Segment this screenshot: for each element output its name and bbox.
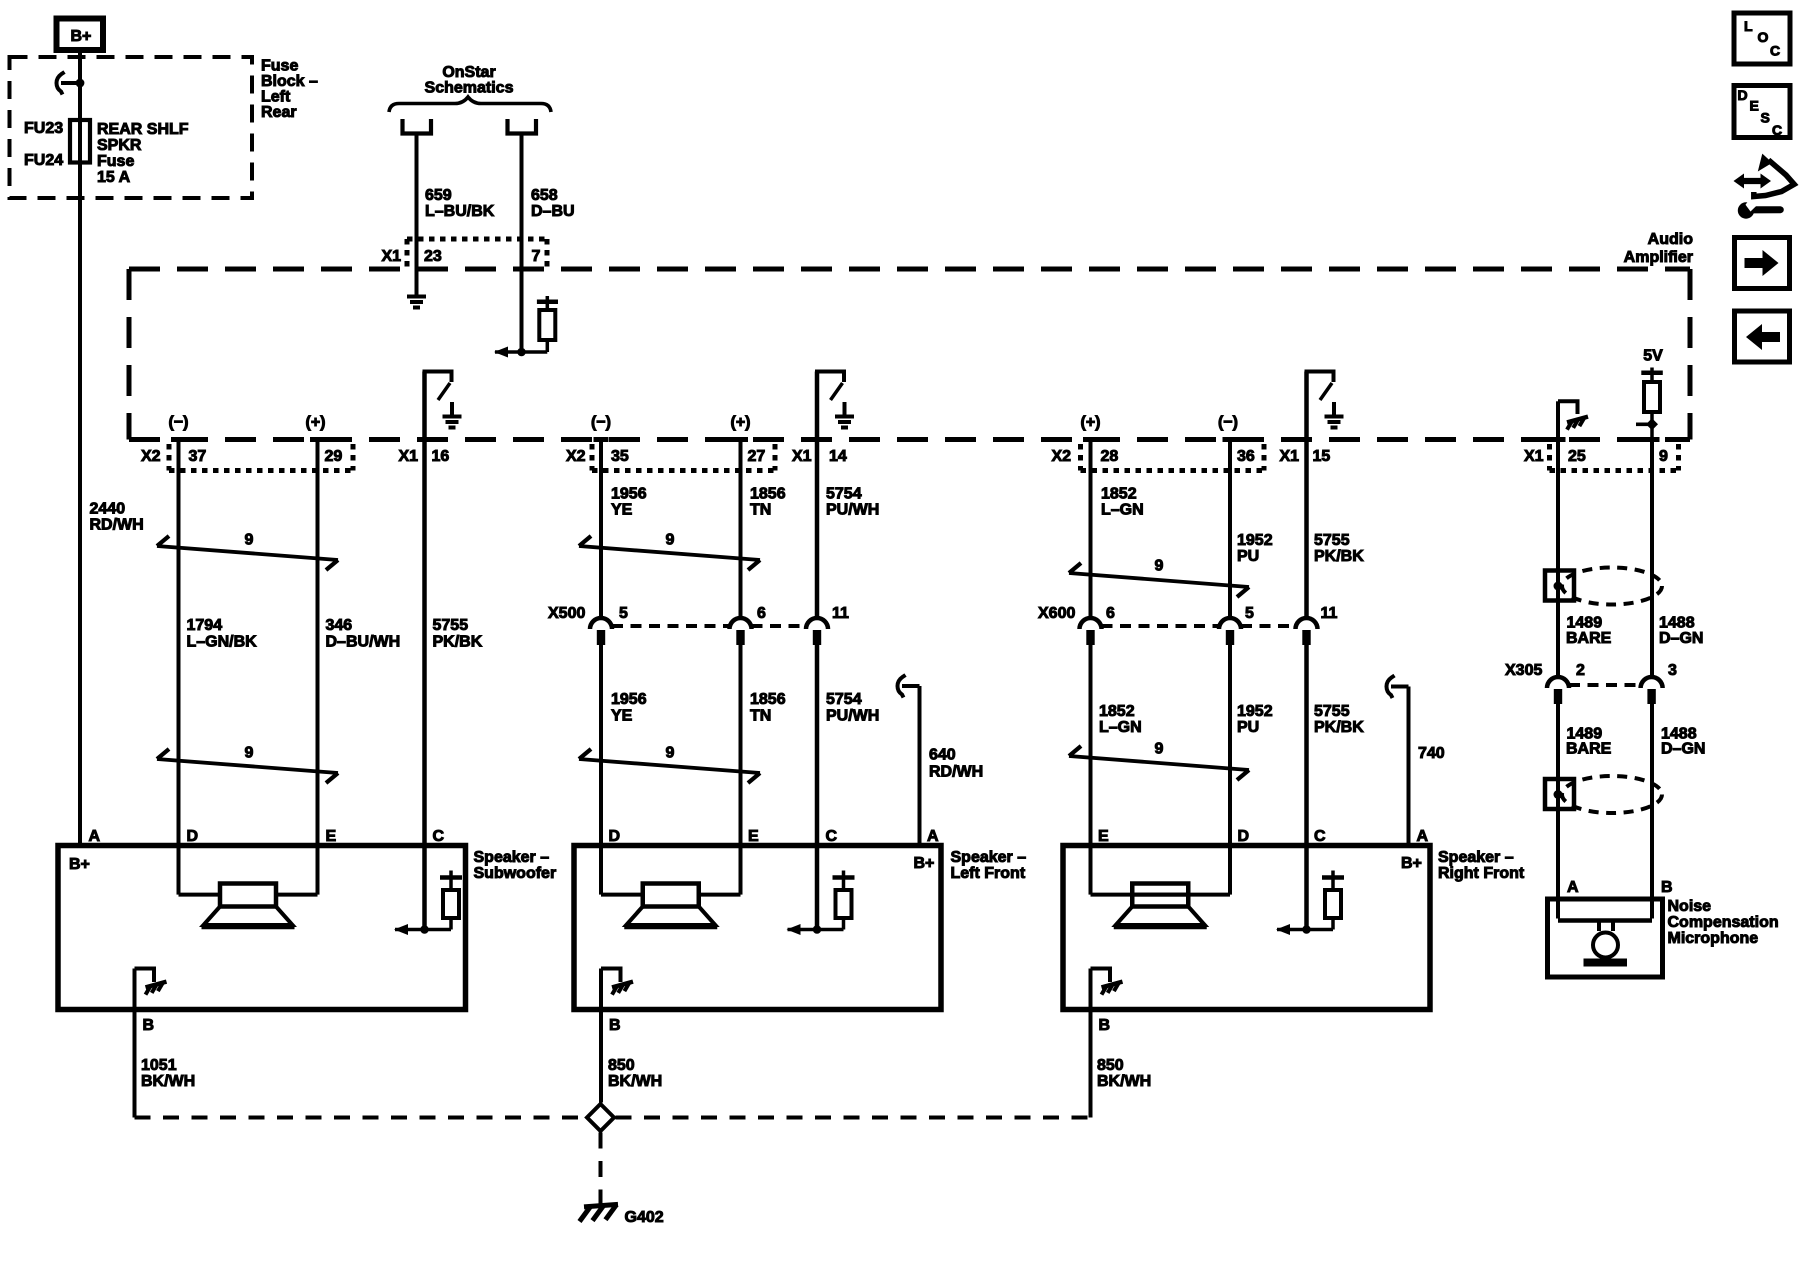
- svg-text:FU24: FU24: [24, 152, 63, 169]
- load resistor to pin C left front: [815, 846, 820, 930]
- svg-text:B+: B+: [1401, 855, 1422, 872]
- connector hook feed inside fuse block: [57, 72, 65, 95]
- svg-text:Audio: Audio: [1648, 231, 1694, 248]
- svg-text:2: 2: [1576, 662, 1585, 679]
- wire 640 RD/WH to LF speaker B+: [898, 675, 906, 698]
- svg-text:658: 658: [531, 187, 558, 204]
- wire 1956 YE upper (pin 35): [599, 440, 603, 617]
- svg-text:Left: Left: [261, 89, 291, 106]
- svg-text:36: 36: [1237, 448, 1255, 465]
- svg-text:PU: PU: [1237, 719, 1259, 736]
- svg-text:PU: PU: [1237, 548, 1259, 565]
- signal wire 1488 D-GN: [1650, 440, 1654, 676]
- svg-text:PK/BK: PK/BK: [1314, 719, 1364, 736]
- svg-text:BARE: BARE: [1566, 630, 1612, 647]
- svg-text:850: 850: [1097, 1057, 1124, 1074]
- svg-text:X2: X2: [1052, 448, 1072, 465]
- load resistor to pin C subwoofer: [422, 846, 427, 930]
- svg-text:37: 37: [189, 448, 207, 465]
- ground G402: [599, 1197, 603, 1206]
- svg-text:C: C: [1772, 122, 1782, 138]
- svg-text:D: D: [609, 828, 621, 845]
- icon DESC: [1734, 86, 1790, 138]
- load resistor to pin C right front: [1304, 846, 1309, 930]
- svg-text:B: B: [143, 1017, 155, 1034]
- svg-text:X1: X1: [1280, 448, 1300, 465]
- svg-text:C: C: [1770, 43, 1780, 59]
- svg-text:RD/WH: RD/WH: [929, 764, 983, 781]
- svg-text:Subwoofer: Subwoofer: [474, 865, 557, 882]
- shield termination symbol upper: [1545, 571, 1574, 601]
- chassis ground hook X1-25: [1556, 401, 1560, 439]
- LF chassis ground + pin B: [599, 969, 603, 1011]
- svg-text:5755: 5755: [433, 617, 469, 634]
- svg-text:YE: YE: [611, 708, 633, 725]
- svg-text:2440: 2440: [90, 501, 126, 518]
- twisted pair marker group1 upper: [157, 546, 338, 560]
- icon arrows-wrench (navigation): [1734, 174, 1772, 189]
- svg-text:X2: X2: [566, 448, 586, 465]
- wire 850 BK/WH from LF B to splice: [599, 1011, 603, 1103]
- svg-text:REAR SHLF: REAR SHLF: [97, 121, 189, 138]
- svg-text:9: 9: [245, 745, 254, 762]
- wire 1051 BK/WH from subwoofer B: [133, 1011, 137, 1118]
- svg-text:X500: X500: [548, 605, 585, 622]
- wire 1952 PU lower: [1228, 642, 1232, 848]
- svg-text:27: 27: [748, 448, 766, 465]
- dashed drop to G402: [599, 1133, 603, 1203]
- svg-text:X1: X1: [792, 448, 812, 465]
- splice diamond: [587, 1104, 614, 1131]
- shield ellipse lower: [1562, 776, 1662, 813]
- wire 659 L-BU/BK: [415, 134, 419, 270]
- svg-text:9: 9: [1155, 558, 1164, 575]
- lower shield segment: [1556, 701, 1560, 899]
- svg-text:A: A: [927, 828, 939, 845]
- svg-text:YE: YE: [611, 502, 633, 519]
- RF chassis ground + pin B: [1089, 969, 1093, 1011]
- ground switch output X1-15: [1304, 372, 1309, 440]
- dashed run to splice: [135, 1116, 586, 1120]
- svg-text:Rear: Rear: [261, 104, 297, 121]
- svg-text:A: A: [1567, 879, 1579, 896]
- svg-text:9: 9: [245, 532, 254, 549]
- wire 1852 L-GN upper (pin 28): [1089, 440, 1093, 617]
- svg-text:23: 23: [424, 248, 442, 265]
- speaker box outline right front: [1063, 846, 1430, 1010]
- svg-text:(−): (−): [591, 414, 611, 431]
- svg-text:15 A: 15 A: [97, 169, 131, 186]
- svg-text:Block –: Block –: [261, 73, 318, 90]
- svg-text:B+: B+: [69, 856, 90, 873]
- svg-text:14: 14: [829, 448, 847, 465]
- OnStar connector terminal right: [508, 119, 537, 134]
- wire 740 to RF speaker B+: [1387, 676, 1395, 699]
- svg-text:D–BU: D–BU: [531, 203, 575, 220]
- svg-text:PK/BK: PK/BK: [433, 634, 483, 651]
- twisted pair marker group2 lower: [579, 759, 760, 773]
- svg-text:640: 640: [929, 747, 956, 764]
- svg-text:35: 35: [611, 448, 629, 465]
- speaker cone symbol right front: [1228, 846, 1232, 895]
- battery feed terminal B+: [57, 19, 104, 51]
- svg-text:16: 16: [432, 448, 450, 465]
- svg-text:X1: X1: [382, 248, 402, 265]
- svg-text:G402: G402: [625, 1209, 664, 1226]
- svg-text:Amplifier: Amplifier: [1624, 249, 1693, 266]
- svg-text:OnStar: OnStar: [442, 64, 495, 81]
- ground switch output X1-14: [815, 372, 820, 440]
- svg-text:(+): (+): [731, 414, 751, 431]
- svg-text:5: 5: [1245, 605, 1254, 622]
- svg-text:1856: 1856: [750, 691, 786, 708]
- svg-text:9: 9: [1155, 741, 1164, 758]
- OnStar connector terminal left: [403, 119, 432, 134]
- svg-text:X305: X305: [1505, 662, 1542, 679]
- svg-text:PU/WH: PU/WH: [826, 502, 879, 519]
- svg-text:9: 9: [666, 745, 675, 762]
- svg-text:RD/WH: RD/WH: [90, 517, 144, 534]
- svg-text:BK/WH: BK/WH: [608, 1073, 662, 1090]
- svg-text:X600: X600: [1038, 605, 1075, 622]
- svg-text:850: 850: [608, 1057, 635, 1074]
- svg-text:C: C: [1314, 828, 1326, 845]
- fuse block dashed box: [10, 57, 253, 198]
- svg-text:3: 3: [1668, 662, 1677, 679]
- svg-text:FU23: FU23: [24, 120, 63, 137]
- svg-text:1489: 1489: [1567, 615, 1603, 632]
- svg-text:5: 5: [619, 605, 628, 622]
- svg-text:SPKR: SPKR: [97, 137, 142, 154]
- svg-text:BK/WH: BK/WH: [1097, 1073, 1151, 1090]
- pull-up resistor circuit on wire 658: [546, 296, 550, 300]
- svg-text:A: A: [89, 828, 101, 845]
- svg-text:D: D: [1238, 828, 1250, 845]
- svg-text:B+: B+: [914, 855, 935, 872]
- svg-text:(−): (−): [1218, 414, 1238, 431]
- svg-text:Speaker –: Speaker –: [951, 849, 1027, 866]
- svg-text:5755: 5755: [1314, 703, 1350, 720]
- mic element: [1556, 899, 1560, 919]
- icon forward arrow: [1735, 238, 1790, 289]
- svg-text:Noise: Noise: [1668, 898, 1712, 915]
- speaker box outline subwoofer: [58, 846, 466, 1010]
- svg-text:L–BU/BK: L–BU/BK: [425, 203, 495, 220]
- speaker box outline left front: [574, 846, 941, 1010]
- svg-text:7: 7: [532, 248, 541, 265]
- svg-text:D: D: [187, 828, 199, 845]
- svg-text:1952: 1952: [1237, 532, 1273, 549]
- svg-text:O: O: [1758, 29, 1769, 45]
- wire 1856 TN upper (pin 27): [739, 440, 743, 617]
- ground switch output X1-16: [422, 372, 427, 440]
- svg-text:6: 6: [1106, 605, 1115, 622]
- svg-text:1856: 1856: [750, 486, 786, 503]
- wire 5755 PK/BK lower: [1304, 642, 1309, 848]
- svg-text:(−): (−): [169, 414, 189, 431]
- speaker cone symbol subwoofer: [177, 846, 181, 895]
- svg-text:28: 28: [1101, 448, 1119, 465]
- svg-text:(+): (+): [1081, 414, 1101, 431]
- svg-text:E: E: [1098, 828, 1109, 845]
- svg-text:BARE: BARE: [1566, 741, 1612, 758]
- svg-text:740: 740: [1418, 745, 1445, 762]
- svg-text:E: E: [326, 828, 337, 845]
- audio amplifier dashed box: [129, 267, 1690, 272]
- dashed run RF to splice: [616, 1116, 1091, 1120]
- svg-text:5755: 5755: [1314, 532, 1350, 549]
- svg-text:B+: B+: [71, 28, 92, 45]
- svg-text:TN: TN: [750, 708, 771, 725]
- svg-text:L: L: [1744, 18, 1753, 34]
- wire 346 D-BU/WH (pin 29 to sub E): [316, 440, 320, 849]
- brace: [389, 97, 551, 112]
- speaker cone symbol left front: [599, 846, 603, 895]
- svg-text:Schematics: Schematics: [425, 80, 514, 97]
- svg-text:5V: 5V: [1643, 348, 1663, 365]
- svg-text:PU/WH: PU/WH: [826, 708, 879, 725]
- svg-text:5754: 5754: [826, 691, 862, 708]
- svg-text:659: 659: [425, 187, 452, 204]
- svg-text:E: E: [1750, 98, 1759, 114]
- svg-text:S: S: [1761, 110, 1770, 126]
- svg-text:Microphone: Microphone: [1668, 930, 1759, 947]
- wire 1956 YE lower: [599, 642, 603, 848]
- svg-text:B: B: [1661, 879, 1673, 896]
- wire 1794 L-GN/BK (pin 37 to sub D): [177, 440, 181, 849]
- fuse FU23/FU24 symbol: [70, 120, 90, 163]
- svg-text:D–BU/WH: D–BU/WH: [326, 634, 401, 651]
- wire 1852 L-GN lower: [1089, 642, 1093, 848]
- svg-text:11: 11: [832, 605, 849, 622]
- svg-text:L–GN/BK: L–GN/BK: [187, 634, 258, 651]
- twisted pair marker group3 upper: [1069, 573, 1249, 587]
- wire from B+ through fuse to subwoofer pin A (circuit 2440): [78, 52, 82, 848]
- svg-text:L–GN: L–GN: [1101, 502, 1144, 519]
- svg-text:1852: 1852: [1101, 486, 1137, 503]
- svg-text:29: 29: [325, 448, 343, 465]
- wire 5754 PU/WH upper (pin 14): [815, 440, 820, 617]
- svg-text:X1: X1: [1524, 448, 1544, 465]
- svg-text:D: D: [1738, 87, 1748, 103]
- svg-text:11: 11: [1321, 605, 1338, 622]
- svg-text:6: 6: [757, 605, 766, 622]
- wire 5754 PU/WH lower: [815, 642, 820, 848]
- svg-text:Speaker –: Speaker –: [1438, 849, 1514, 866]
- svg-text:D–GN: D–GN: [1659, 630, 1703, 647]
- shield ellipse upper: [1562, 568, 1662, 605]
- X1 connector (OnStar side) dotted box: [407, 237, 547, 242]
- svg-text:X2: X2: [141, 448, 161, 465]
- svg-text:346: 346: [326, 617, 353, 634]
- wire 1856 TN lower: [739, 642, 743, 848]
- twisted pair marker group2 upper: [579, 546, 760, 560]
- svg-text:B: B: [1099, 1017, 1111, 1034]
- svg-text:X1: X1: [399, 448, 419, 465]
- wire 658 D-BU: [520, 134, 524, 353]
- svg-text:C: C: [433, 828, 445, 845]
- svg-text:TN: TN: [750, 502, 771, 519]
- twisted pair marker group3 lower: [1069, 756, 1249, 770]
- svg-text:1956: 1956: [611, 486, 647, 503]
- svg-text:BK/WH: BK/WH: [141, 1073, 195, 1090]
- svg-text:9: 9: [1659, 448, 1668, 465]
- svg-text:L–GN: L–GN: [1099, 719, 1142, 736]
- wire 1952 PU upper (pin 36): [1228, 440, 1232, 617]
- svg-text:1952: 1952: [1237, 703, 1273, 720]
- svg-text:Speaker –: Speaker –: [474, 849, 550, 866]
- svg-text:1488: 1488: [1659, 615, 1695, 632]
- wire 5755 PK/BK (pin 16 to sub C): [422, 440, 427, 849]
- svg-text:5754: 5754: [826, 486, 862, 503]
- svg-text:9: 9: [666, 532, 675, 549]
- svg-text:C: C: [826, 828, 838, 845]
- svg-text:1051: 1051: [141, 1057, 177, 1074]
- svg-text:Left Front: Left Front: [951, 865, 1026, 882]
- svg-text:15: 15: [1313, 448, 1331, 465]
- shield drain wire 1489 BARE: [1556, 440, 1560, 676]
- shield termination symbol lower: [1545, 779, 1574, 809]
- wire 5755 PK/BK upper (pin 15): [1304, 440, 1309, 617]
- svg-text:(+): (+): [306, 414, 326, 431]
- ground symbol under pin 23: [415, 269, 419, 282]
- svg-text:Fuse: Fuse: [97, 153, 134, 170]
- svg-text:PK/BK: PK/BK: [1314, 548, 1364, 565]
- svg-text:Fuse: Fuse: [261, 58, 298, 75]
- svg-text:Compensation: Compensation: [1668, 914, 1779, 931]
- svg-text:A: A: [1417, 828, 1429, 845]
- wire 850 BK/WH from RF B: [1089, 1011, 1093, 1118]
- icon LOC: [1734, 13, 1790, 64]
- svg-text:25: 25: [1568, 448, 1586, 465]
- svg-text:E: E: [748, 828, 759, 845]
- svg-text:1956: 1956: [611, 691, 647, 708]
- svg-text:B: B: [609, 1017, 621, 1034]
- svg-text:Right Front: Right Front: [1438, 865, 1525, 882]
- noise compensation microphone box: [1548, 899, 1663, 977]
- twisted pair marker group1 lower: [157, 759, 338, 773]
- svg-text:D–GN: D–GN: [1661, 741, 1705, 758]
- svg-text:1852: 1852: [1099, 703, 1135, 720]
- subwoofer chassis ground + pin B: [133, 969, 137, 1011]
- svg-text:1794: 1794: [187, 617, 223, 634]
- icon back arrow: [1735, 311, 1790, 362]
